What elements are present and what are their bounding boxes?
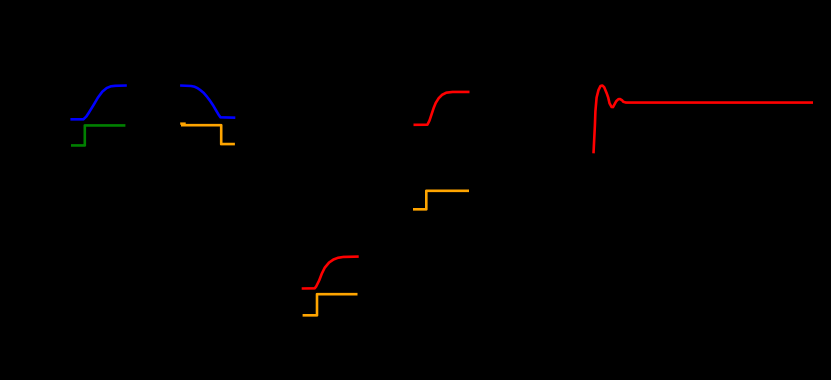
blue rising step-response curve (top-left plot) xyxy=(70,86,126,120)
orange step-down input stub (second top plot) xyxy=(180,122,186,124)
green step input (top-left plot) xyxy=(71,125,125,145)
red rising step-response curve (lower middle plot) xyxy=(302,257,359,289)
red oscillating closed-loop response (right plot) xyxy=(594,86,814,154)
orange step input (upper middle plot) xyxy=(413,191,469,210)
orange step-down input (second top plot) xyxy=(181,125,235,144)
orange step input (lower middle plot) xyxy=(303,294,358,315)
blue falling step-response curve (second top plot) xyxy=(180,86,235,118)
red rising step-response curve (upper middle plot) xyxy=(414,92,470,125)
